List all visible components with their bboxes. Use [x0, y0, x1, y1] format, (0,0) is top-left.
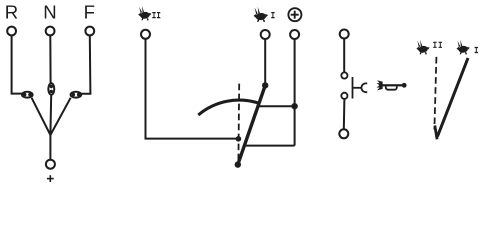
dashed lever position II right	[434, 57, 436, 130]
hare icon I (wiper slow)	[254, 7, 269, 22]
svg-text:F: F	[84, 1, 96, 22]
terminal plus	[290, 30, 299, 39]
junction dot upper	[291, 103, 297, 109]
wire horn top	[343, 39, 345, 73]
pushbutton bridge	[352, 77, 354, 99]
hare icon I right	[457, 40, 470, 55]
connector N (bi-pin vertical)	[48, 83, 54, 94]
wire F diagonal to junction	[50, 98, 70, 135]
wire II down and right	[146, 39, 237, 139]
lever position I right	[437, 58, 468, 137]
terminal +	[46, 160, 55, 169]
wire plus down	[294, 39, 296, 146]
wire brush lower	[245, 145, 295, 147]
contact dot position II	[236, 136, 242, 142]
label II right	[433, 42, 442, 48]
pushbutton stem	[353, 87, 362, 89]
pushbutton contact lower	[341, 93, 347, 99]
wire horn bottom	[343, 99, 346, 129]
wire N to junction	[49, 95, 52, 135]
terminal II	[141, 30, 150, 39]
terminal horn top	[340, 30, 349, 39]
svg-text:N: N	[43, 1, 57, 22]
label +	[47, 175, 54, 182]
connector F (bi-pin)	[71, 92, 82, 98]
terminal I	[261, 30, 270, 39]
label I	[271, 12, 274, 18]
label I right	[475, 47, 478, 53]
wire R diagonal to junction	[32, 98, 51, 135]
terminal F	[85, 27, 94, 36]
wiper contact arc	[198, 100, 258, 115]
pushbutton knob	[361, 83, 367, 92]
hare icon II (wiper fast)	[138, 6, 151, 21]
horn icon	[377, 80, 407, 90]
terminal R	[7, 27, 16, 36]
svg-text:R: R	[5, 1, 19, 22]
wire junction stem	[49, 135, 51, 160]
bold lever tip	[435, 126, 437, 140]
label II	[152, 12, 160, 18]
wire brush upper	[258, 105, 295, 107]
horn loop	[386, 86, 397, 90]
terminal N	[46, 27, 55, 36]
connector R (bi-pin)	[22, 92, 33, 98]
switch lever	[238, 85, 265, 164]
lever pivot dot	[235, 161, 241, 167]
wire F down	[81, 36, 91, 94]
lever top dot	[262, 82, 268, 88]
wire R down	[12, 36, 23, 94]
pushbutton contact upper	[341, 72, 347, 78]
terminal horn bottom	[339, 129, 348, 138]
dashed line (lever position II)	[237, 84, 240, 161]
wire I down	[264, 39, 266, 85]
hare icon II right	[416, 40, 429, 55]
power symbol (circled plus)	[288, 8, 301, 21]
wire N down	[49, 36, 51, 84]
